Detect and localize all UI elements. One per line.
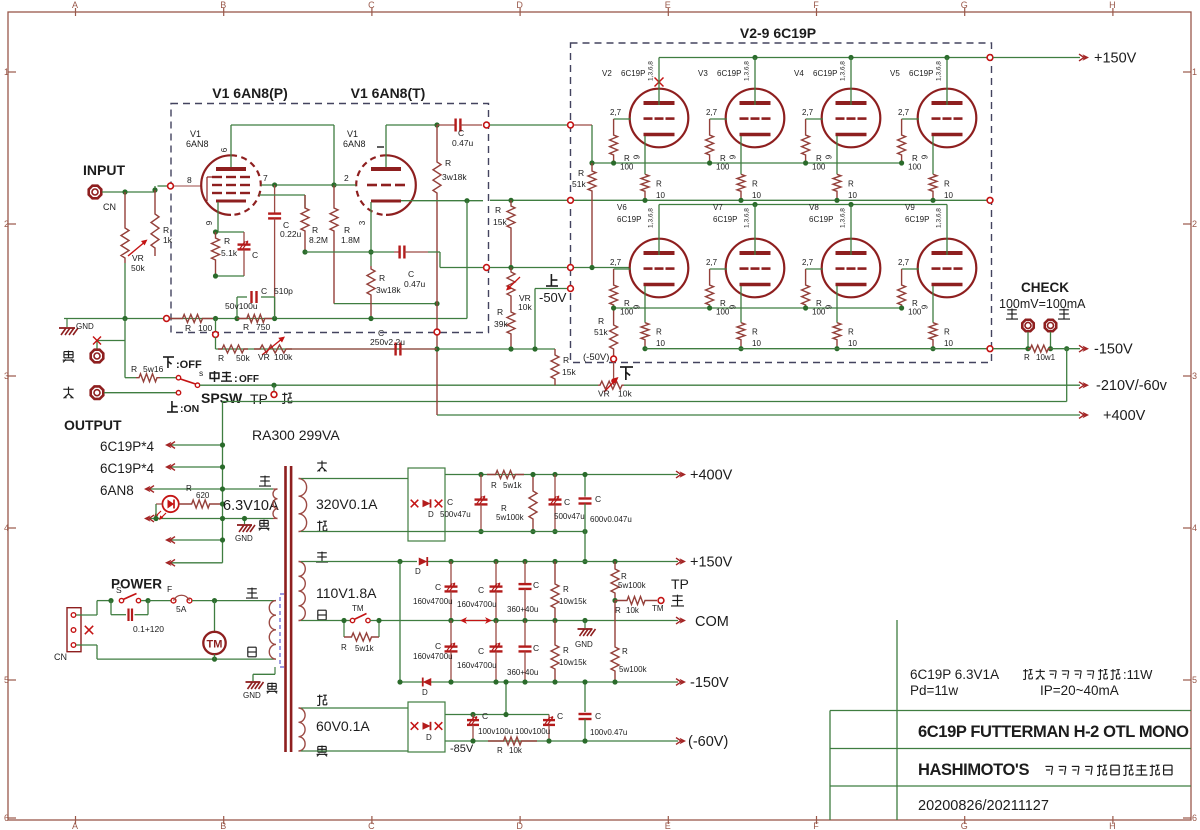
V5 plate bar: [932, 101, 963, 105]
junction y349 x511: [508, 346, 513, 351]
svg-text:R: R: [131, 364, 137, 374]
electrolytic C 100v100u a: [470, 712, 475, 717]
check terminal stubs: [1027, 332, 1029, 349]
svg-text:750: 750: [256, 322, 270, 332]
svg-text:6C19P: 6C19P: [809, 215, 833, 224]
svg-text:2,7: 2,7: [706, 108, 718, 117]
junction grid bus left: [589, 160, 594, 165]
svg-text:3w18k: 3w18k: [376, 285, 401, 295]
svg-text:R: R: [944, 179, 950, 188]
svg-text:510p: 510p: [274, 286, 293, 296]
svg-text:VR: VR: [598, 389, 610, 399]
svg-text:0.1+120: 0.1+120: [133, 624, 164, 634]
svg-text:50v100u: 50v100u: [225, 301, 258, 311]
tube V8 6C19P: [822, 239, 881, 298]
tube V1 6AN8 pentode circle: [201, 155, 231, 215]
resistor R 15k lower: [551, 349, 559, 385]
wire cathode join: [216, 275, 245, 277]
title kanji print circuit board wiring diagram: [1045, 766, 1052, 774]
arrow +400V right edge: [1079, 412, 1084, 419]
svg-text:10k: 10k: [509, 746, 523, 755]
svg-text:S: S: [116, 585, 122, 595]
wire 320V top lead: [301, 478, 408, 480]
drive wire bottom row: [574, 267, 630, 269]
resistor R 51k upper: [588, 163, 596, 268]
junction R100 V4: [803, 160, 808, 165]
svg-text:160v4700u: 160v4700u: [413, 597, 453, 606]
pentode cathode lead: [217, 202, 219, 232]
svg-text:5A: 5A: [176, 604, 187, 614]
V7 cathode lead: [740, 286, 742, 323]
port V29 left y200: [568, 197, 574, 203]
svg-text:V6: V6: [617, 203, 627, 212]
dashed box V1 6AN8 stage: [171, 104, 489, 333]
svg-text:R: R: [491, 481, 497, 490]
junction bus x215: [213, 316, 218, 321]
heater winding 6.3V: [273, 489, 278, 519]
label ue -50V: [546, 274, 558, 286]
capacitor C 0.47u top coupling: [437, 124, 456, 126]
svg-text:R: R: [163, 225, 169, 235]
electrolytic C 160v4700u top 0: [448, 559, 453, 564]
V6 cathode lead: [644, 286, 646, 323]
winding 110V: [299, 562, 306, 621]
heater return rail: [223, 401, 1067, 403]
svg-text:1,3,6,8: 1,3,6,8: [840, 61, 847, 81]
junction plate node: [434, 122, 439, 127]
svg-text:CN: CN: [103, 202, 116, 212]
arrow +150V power: [676, 558, 681, 565]
arrow -150V power: [676, 679, 681, 686]
junction R10 V2: [642, 198, 647, 203]
svg-text:2,7: 2,7: [706, 258, 718, 267]
svg-text:V1: V1: [190, 129, 201, 139]
label dai orange winding: [317, 521, 327, 532]
V3 grid resistor R 100: [706, 119, 714, 163]
svg-text:3w18k: 3w18k: [442, 172, 467, 182]
junction bias: [611, 379, 616, 384]
svg-text::OFF: :OFF: [176, 359, 202, 371]
svg-text:1,3,6,8: 1,3,6,8: [744, 208, 751, 228]
junction sw branch a: [108, 598, 113, 603]
svg-text:R: R: [185, 323, 191, 333]
junction R100 V9: [899, 305, 904, 310]
label shita:OFF: [163, 357, 174, 368]
svg-text:1: 1: [1192, 67, 1197, 77]
svg-text:R: R: [344, 225, 350, 235]
electrolytic C 100v100u b: [548, 715, 550, 721]
V8 cathode resistor R 10: [833, 323, 841, 349]
svg-text:10w15k: 10w15k: [559, 658, 588, 667]
heater wire 6AN8 / winding blue: [150, 488, 273, 490]
heater wire aux b: [171, 562, 223, 564]
320V negative rail: [478, 529, 483, 534]
svg-text:110V1.8A: 110V1.8A: [316, 585, 377, 601]
wire CN pin3 bottom rail: [76, 644, 97, 646]
winding 320V: [299, 479, 307, 532]
svg-text:R: R: [752, 179, 758, 188]
junction R100 V7: [707, 305, 712, 310]
arrow -210V/-60v: [1079, 382, 1084, 389]
svg-text:160v4700u: 160v4700u: [457, 661, 497, 670]
svg-text:F: F: [167, 584, 172, 594]
wire T cathode output: [401, 200, 483, 202]
capacitor C 0.47u lower coupling: [394, 251, 400, 253]
junction 585 531: [582, 529, 587, 534]
svg-text::11W: :11W: [1123, 667, 1153, 682]
svg-text:6.3V10A: 6.3V10A: [223, 498, 279, 514]
svg-text:1.8M: 1.8M: [341, 235, 360, 245]
V8 plate bar: [836, 251, 867, 255]
V9 plate lead: [946, 205, 948, 256]
svg-text:10: 10: [848, 191, 857, 200]
wire ports y125 between boxes: [490, 124, 567, 126]
svg-text:INPUT: INPUT: [83, 162, 125, 178]
V5 cathode resistor R 10: [929, 174, 937, 200]
V8 grid wire 2,7: [806, 268, 823, 270]
port on bus at box edge: [164, 316, 170, 322]
svg-text:(-60V): (-60V): [688, 734, 728, 750]
junction bus x237: [234, 316, 239, 321]
svg-text:100v0.47u: 100v0.47u: [590, 728, 627, 737]
svg-text:5w100k: 5w100k: [618, 581, 647, 590]
svg-text:60V0.1A: 60V0.1A: [316, 718, 370, 734]
svg-text:2: 2: [344, 173, 349, 183]
wire +150V to arrow: [993, 57, 1080, 59]
bridge rectifier D1 box: [408, 468, 445, 541]
V9 cathode lead: [932, 286, 934, 323]
junction input/VR: [122, 189, 127, 194]
svg-text:9: 9: [633, 154, 642, 159]
V9 grid resistor R 100: [898, 269, 906, 308]
V9 plate bar: [932, 251, 963, 255]
triode grid dashes: [367, 184, 377, 187]
V7 plate lead: [754, 205, 756, 256]
wire y349 row: [437, 348, 555, 350]
wire screen to R8.2M: [259, 194, 305, 196]
svg-text:6C19P: 6C19P: [813, 69, 837, 78]
junction TM bottom: [212, 657, 217, 662]
svg-text:5.1k: 5.1k: [221, 248, 238, 258]
svg-text:6C19P 6.3V1A: 6C19P 6.3V1A: [910, 667, 999, 682]
svg-text:R: R: [598, 316, 604, 326]
wire 585 vertical top: [584, 475, 586, 497]
V3 grid dashes: [740, 117, 749, 120]
resistor R 51k lower: [610, 308, 618, 356]
V6 plate bar: [644, 251, 675, 255]
junction R10 V6: [642, 346, 647, 351]
label ue:ON: [167, 401, 178, 412]
tube V2 6C19P: [630, 89, 689, 148]
V6 plate lead: [658, 205, 660, 256]
svg-text:C: C: [458, 128, 464, 138]
resistor R 100 on bus: [170, 315, 215, 323]
junction R15k chain top: [508, 198, 513, 203]
tube V9 6C19P: [918, 239, 977, 298]
svg-text:C: C: [261, 286, 267, 296]
svg-text:6C19P: 6C19P: [621, 69, 645, 78]
svg-text:OFF: OFF: [239, 374, 259, 385]
gnd stub heater: [244, 519, 246, 525]
resistor R 10k TP: [615, 597, 657, 605]
svg-text:10: 10: [944, 339, 953, 348]
plate bus +150V top row: [659, 57, 990, 59]
svg-text:8: 8: [187, 175, 192, 185]
svg-text:7: 7: [263, 173, 268, 183]
svg-text:4: 4: [1192, 523, 1197, 533]
resistor R 5w1k rail: [487, 471, 524, 479]
V2 grid dashes: [644, 117, 653, 120]
wire CN pin1: [76, 614, 97, 616]
tube V4 6C19P: [822, 89, 881, 148]
svg-text:V9: V9: [905, 203, 915, 212]
svg-text:Pd=11w: Pd=11w: [910, 683, 958, 698]
junction at x437 y303: [434, 301, 439, 306]
svg-text:160v4700u: 160v4700u: [457, 600, 497, 609]
wire junction to arrow: [1051, 348, 1081, 350]
switch SPSW common contact: [195, 383, 199, 387]
svg-text:51k: 51k: [594, 327, 608, 337]
svg-text:0.22u: 0.22u: [280, 229, 302, 239]
svg-text:C: C: [595, 494, 601, 504]
resistor R 8.2M: [301, 195, 309, 252]
svg-text:R: R: [563, 355, 569, 365]
label aka red winding: [317, 461, 327, 472]
port output bus right: [987, 197, 993, 203]
svg-text:360+40u: 360+40u: [507, 668, 538, 677]
switch contact down: [176, 391, 180, 395]
svg-text:D: D: [426, 733, 432, 742]
wire red terminal to switch contact down: [104, 392, 176, 394]
potentiometer VR 10k bias: [598, 381, 624, 389]
port TM tap: [658, 598, 664, 604]
svg-text:5w100k: 5w100k: [496, 513, 525, 522]
svg-text:15k: 15k: [562, 367, 576, 377]
svg-text:V5: V5: [890, 69, 900, 78]
label ki yellow winding: [316, 552, 328, 562]
svg-text:5w1k: 5w1k: [503, 481, 523, 490]
wire lower row to R50k: [216, 348, 438, 350]
svg-text:320V0.1A: 320V0.1A: [316, 496, 378, 512]
motor TM timer: [214, 601, 216, 632]
arrow +400V mid: [676, 471, 681, 478]
svg-text:+400V: +400V: [690, 468, 733, 484]
svg-text:V2: V2: [602, 69, 612, 78]
arrow +150V: [1079, 54, 1084, 61]
wire fuse to primary: [192, 600, 274, 602]
V4 grid dashes: [836, 117, 845, 120]
svg-text:5w1k: 5w1k: [355, 644, 375, 653]
label chuuritsu:OFF: [210, 371, 219, 382]
wire 585 to +150 rail: [584, 532, 586, 562]
svg-text::: :: [234, 373, 238, 385]
svg-text:10: 10: [752, 339, 761, 348]
label kuro black: [63, 351, 75, 363]
V4 cathode resistor R 10: [833, 174, 841, 200]
V2 cathode resistor R 10: [641, 174, 649, 200]
potentiometer VR 50k: [121, 192, 129, 263]
svg-text:R: R: [497, 746, 503, 755]
wire switch to fuse: [141, 600, 148, 602]
svg-text:R: R: [848, 328, 854, 337]
svg-text:-150V: -150V: [1094, 342, 1133, 358]
label kuro shield: [267, 683, 278, 694]
x-mark on black output wire: [93, 337, 101, 345]
svg-text:C: C: [447, 497, 453, 507]
svg-text:+150V: +150V: [1094, 51, 1137, 67]
capacitor C 600v0.047u: [584, 475, 586, 532]
svg-text:R: R: [379, 273, 385, 283]
COM rail white lead: [301, 620, 350, 622]
resistor R 620: [179, 500, 223, 508]
wire bus up x467: [466, 201, 468, 319]
junction -150 heater rail: [1064, 346, 1069, 351]
junction R8.2M bottom: [302, 249, 307, 254]
svg-text:6C19P: 6C19P: [905, 215, 929, 224]
svg-text:V8: V8: [809, 203, 819, 212]
svg-text:1k: 1k: [163, 235, 173, 245]
svg-text:10: 10: [656, 191, 665, 200]
wire y267 between boxes: [490, 267, 567, 269]
port -150V box right: [987, 346, 993, 352]
svg-text:C: C: [435, 582, 441, 592]
wire coupling row y252: [305, 251, 394, 253]
spec kanji max plate loss 11W: [1023, 669, 1032, 679]
wire pin2: [334, 184, 356, 186]
tube V7 6C19P: [726, 239, 785, 298]
svg-text:R: R: [752, 328, 758, 337]
label ki yellow primary: [246, 588, 258, 598]
triode cathode lead: [370, 202, 372, 266]
port V1 box bottom x437: [434, 329, 440, 335]
port TP green: [271, 392, 277, 398]
label ao blue winding: [259, 476, 271, 486]
label ki yellow check: [1006, 309, 1018, 319]
V8 grid resistor R 100: [802, 269, 810, 308]
svg-text:250v2.2u: 250v2.2u: [370, 337, 405, 347]
junction T grid node: [331, 182, 336, 187]
heater return / winding black: [150, 518, 273, 520]
heater feed vertical: [222, 402, 224, 563]
V5 grid wire 2,7: [902, 118, 919, 120]
svg-text:6AN8: 6AN8: [100, 483, 134, 498]
title block top line: [830, 710, 1191, 712]
svg-text:9: 9: [729, 154, 738, 159]
svg-text:V2-9 6C19P: V2-9 6C19P: [740, 25, 816, 41]
svg-text:2,7: 2,7: [898, 258, 910, 267]
pentode plate bar: [216, 167, 246, 171]
svg-text:6: 6: [1192, 813, 1197, 823]
svg-text:C: C: [482, 711, 488, 721]
svg-text:6C19P: 6C19P: [909, 69, 933, 78]
plate bus bottom row: [659, 204, 947, 206]
resistor R 3w18k cathode follower: [367, 266, 375, 319]
svg-text:(-50V): (-50V): [583, 352, 609, 363]
label midori green: [282, 393, 292, 404]
svg-text:R: R: [218, 353, 224, 363]
title block divider: [896, 620, 898, 820]
V6 grid wire 2,7: [614, 268, 631, 270]
wire port to check: [993, 348, 1031, 350]
svg-text:0.47u: 0.47u: [452, 138, 474, 148]
svg-text:-50V: -50V: [539, 290, 567, 305]
svg-text:R: R: [224, 236, 230, 246]
svg-text:20200826/20211127: 20200826/20211127: [918, 798, 1049, 814]
svg-text:100v100u: 100v100u: [515, 727, 550, 736]
ground symbol input GND: [66, 319, 68, 328]
svg-text:6C19P*4: 6C19P*4: [100, 439, 155, 454]
svg-text:10k: 10k: [626, 606, 640, 615]
tube V5 6C19P: [918, 89, 977, 148]
V8 cathode bar: [836, 283, 867, 286]
port box bottom -50V: [611, 356, 617, 362]
port +150V box right: [987, 55, 993, 61]
V5 cathode bar: [932, 133, 963, 136]
gnd bus wire: [64, 318, 467, 320]
svg-text:9: 9: [825, 154, 834, 159]
pentode grid side bracket: [206, 177, 208, 201]
svg-text:2,7: 2,7: [898, 108, 910, 117]
svg-text:3: 3: [1192, 371, 1197, 381]
V4 plate lead: [850, 58, 852, 106]
diode D +150: [419, 557, 428, 565]
switch SPSW lever: [181, 379, 196, 384]
svg-text:RA300 299VA: RA300 299VA: [252, 427, 340, 443]
port V29 left y125: [568, 122, 574, 128]
junction R51k bottom: [589, 265, 594, 270]
triode plate lead: [385, 125, 387, 167]
switch SPSW contact up: [176, 376, 180, 380]
wire VR to -210V arrow: [624, 384, 1080, 386]
svg-text:0.47u: 0.47u: [404, 279, 426, 289]
svg-text:100k: 100k: [274, 352, 293, 362]
resistor R 10w15k bot: [551, 621, 559, 683]
60V top rail: [445, 714, 549, 716]
60V bottom rail -60V: [445, 740, 678, 742]
port V1 right y267: [484, 265, 490, 271]
V6 grid resistor R 100: [610, 269, 618, 308]
junction R10 V4: [834, 198, 839, 203]
resistor R 10k 60V: [488, 737, 537, 745]
electrolytic C 500v47u a: [480, 475, 482, 500]
double arrow mark: [464, 620, 488, 622]
svg-text:R: R: [621, 572, 627, 581]
resistor R 15k upper: [507, 200, 515, 267]
svg-text:500v47u: 500v47u: [554, 512, 585, 521]
svg-text:9: 9: [729, 304, 738, 309]
V7 grid dashes: [740, 267, 749, 270]
svg-text:GND: GND: [575, 640, 593, 649]
V8 grid dashes: [836, 267, 845, 270]
svg-text:50k: 50k: [131, 263, 145, 273]
svg-text:10: 10: [944, 191, 953, 200]
svg-text:9: 9: [921, 154, 930, 159]
svg-text:COM: COM: [695, 614, 729, 630]
svg-text:R: R: [622, 647, 628, 656]
svg-text:TM: TM: [352, 604, 364, 613]
wire -50V port to bias rail: [613, 362, 615, 385]
tube V1 6AN8 triode circle: [386, 155, 416, 215]
svg-text:6AN8: 6AN8: [343, 139, 366, 149]
V5 cathode lead: [932, 136, 934, 174]
switch S power: [119, 598, 123, 602]
svg-text:V7: V7: [713, 203, 723, 212]
svg-text:D: D: [422, 688, 428, 697]
svg-text:10k: 10k: [518, 302, 532, 312]
arrow -150V: [1079, 345, 1084, 352]
svg-text:8.2M: 8.2M: [309, 235, 328, 245]
wire plate top V1P: [231, 124, 334, 126]
